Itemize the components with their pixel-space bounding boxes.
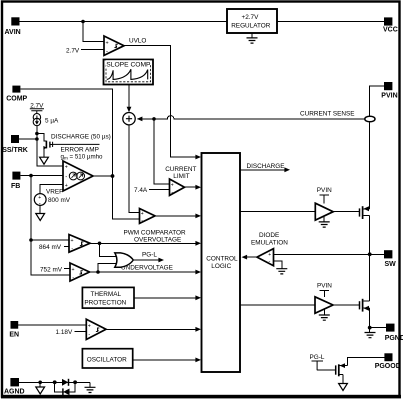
svg-text:CURRENT: CURRENT — [165, 166, 196, 173]
wire diode loop — [55, 382, 75, 392]
svg-text:LIMIT: LIMIT — [173, 173, 189, 180]
wire FB down to comparators — [31, 176, 69, 240]
svg-text:AGND: AGND — [4, 388, 25, 395]
wire 864mV to comparator - input — [64, 246, 69, 248]
wire 7.4A to current limit - input — [149, 188, 170, 190]
diode top (pointing right) — [62, 379, 69, 386]
svg-text:THERMAL: THERMAL — [91, 291, 122, 298]
wire diode emulation - input to ground — [274, 261, 282, 269]
node diode left — [53, 380, 57, 384]
wire PG-L arrow — [133, 259, 160, 261]
op-amp diode emulation comparator (points left) — [257, 249, 274, 266]
svg-text:UNDERVOLTAGE: UNDERVOLTAGE — [121, 264, 173, 271]
op-amp current limit comparator — [165, 166, 196, 196]
svg-text:+2.7V: +2.7V — [242, 14, 260, 21]
svg-text:PVIN: PVIN — [381, 92, 397, 99]
wire diode emulation output into control logic — [246, 256, 257, 258]
wire control logic to low side driver — [241, 304, 316, 306]
wire slope comp to summing junction — [128, 85, 130, 108]
svg-text:PVIN: PVIN — [317, 187, 332, 194]
gate OR PG-L — [115, 253, 134, 267]
wire AVIN junction to UVLO + input — [83, 22, 104, 42]
svg-text:FB: FB — [11, 183, 20, 190]
wire to PGND pin — [370, 327, 386, 329]
node SW junction — [368, 252, 372, 256]
node current limit tap — [152, 117, 156, 121]
svg-text:COMP: COMP — [6, 95, 27, 102]
svg-text:752 mV: 752 mV — [40, 266, 63, 273]
wire error amp output to PWM - input — [113, 176, 140, 219]
transistor PGOOD pulldown — [336, 363, 348, 376]
ground arrow on AGND net — [39, 382, 41, 387]
wire current limit output to control logic — [185, 186, 197, 188]
svg-text:-: - — [71, 246, 73, 252]
node AGND arrow tap — [38, 381, 42, 385]
svg-text:OSCILLATOR: OSCILLATOR — [87, 356, 127, 363]
svg-text:-: - — [65, 174, 67, 180]
pin SS/TRK — [2, 135, 28, 154]
node PGND junction — [368, 326, 372, 330]
svg-text:DISCHARGE: DISCHARGE — [247, 163, 285, 170]
op-amp undervoltage comparator 752mV — [70, 263, 90, 281]
svg-text:-: - — [106, 49, 108, 55]
transistor discharge switch — [37, 134, 53, 157]
svg-text:864 mV: 864 mV — [39, 244, 62, 251]
block SLOPE COMP — [104, 60, 154, 85]
rail PVIN above low side driver — [317, 283, 332, 297]
svg-text:800 mV: 800 mV — [48, 197, 71, 204]
block CONTROL LOGIC — [202, 153, 241, 372]
svg-text:+: + — [171, 182, 174, 188]
wire control logic to high side driver — [241, 211, 316, 213]
op-amp EN comparator — [86, 319, 106, 339]
op-amp error amp — [61, 147, 104, 191]
wire driver to high side gate — [333, 211, 359, 213]
svg-text:PROTECTION: PROTECTION — [84, 300, 126, 307]
pin PVIN — [381, 82, 397, 99]
svg-text:CONTROL: CONTROL — [206, 256, 238, 263]
svg-text:PG-L: PG-L — [310, 354, 325, 361]
op-amp low side driver — [315, 297, 333, 314]
svg-text:+: + — [106, 40, 109, 46]
op-amp UVLO comparator — [104, 36, 146, 55]
op-amp high side driver — [315, 203, 333, 220]
svg-text:-: - — [88, 331, 90, 337]
wire driver to low side gate — [333, 304, 359, 306]
wire FB to error amp - input — [20, 175, 63, 177]
svg-text:SW: SW — [385, 261, 397, 268]
svg-text:CURRENT SENSE: CURRENT SENSE — [300, 111, 355, 118]
wire PGOOD drain to pin — [347, 357, 384, 365]
wire overvoltage output to control logic — [90, 242, 197, 244]
wire VREF to ground — [39, 205, 41, 213]
svg-text:-: - — [72, 275, 74, 281]
pin COMP — [6, 86, 27, 103]
wire low side source to PGND — [369, 308, 371, 327]
svg-text:DISCHARGE (50 µs): DISCHARGE (50 µs) — [51, 134, 111, 141]
op-amp overvoltage comparator 864mV — [69, 235, 90, 253]
wire current source to SS/TRK node — [37, 126, 63, 166]
ground below high side driver — [323, 216, 325, 222]
svg-text:1.18V: 1.18V — [56, 329, 73, 336]
wire summing junction to PWM + input — [129, 125, 140, 212]
ground arrow below PGOOD transistor — [339, 384, 348, 391]
svg-text:5 µA: 5 µA — [45, 118, 59, 125]
svg-text:PGOOD: PGOOD — [375, 363, 401, 370]
svg-text:+: + — [268, 252, 271, 258]
ground arrow below discharge switch — [40, 157, 49, 164]
transistor low side NMOS — [360, 299, 370, 312]
svg-text:-: - — [171, 190, 173, 196]
pin PGND — [385, 324, 403, 342]
svg-text:+: + — [72, 267, 75, 273]
svg-text:PWM COMPARATOR: PWM COMPARATOR — [124, 229, 187, 236]
pin SW — [384, 250, 396, 268]
pin AVIN — [5, 17, 21, 36]
voltage source VREF 800mV — [34, 189, 70, 207]
svg-text:OVERVOLTAGE: OVERVOLTAGE — [134, 237, 181, 244]
wire undervoltage output to control logic — [90, 271, 197, 273]
transistor high side NMOS — [360, 206, 370, 219]
wire overvoltage to OR gate top input — [100, 243, 117, 256]
diode bottom (pointing left) — [63, 388, 70, 395]
wire PVIN rail down — [370, 86, 384, 209]
wire 1.18V to comparator - input — [75, 330, 87, 332]
wire EN comparator to control logic — [106, 328, 197, 330]
node FB 864 junction — [29, 238, 33, 242]
pin EN — [9, 321, 19, 339]
svg-text:2.7V: 2.7V — [66, 47, 80, 54]
wire PWM output to control logic — [155, 215, 197, 217]
wire COMP to error amp output node — [20, 89, 112, 176]
wire FB to 752 comparator - input — [31, 240, 70, 275]
wire discharge signal out — [241, 169, 286, 171]
svg-text:SLOPE COMP: SLOPE COMP — [106, 62, 151, 69]
node AVIN junction — [81, 20, 85, 24]
node COMP error amp output — [111, 174, 115, 178]
node FB junction — [29, 174, 33, 178]
wire 2.7V to UVLO - input — [81, 49, 104, 51]
svg-text:+: + — [71, 238, 74, 244]
pin VCC — [383, 17, 398, 33]
svg-text:PG-L: PG-L — [142, 252, 157, 259]
label DIODE EMULATION — [251, 232, 288, 247]
node SS junction top — [35, 132, 39, 136]
svg-text:gm = 510 µmho: gm = 510 µmho — [61, 153, 104, 160]
wire thermal protection to control logic — [134, 297, 197, 299]
svg-text:REGULATOR: REGULATOR — [231, 22, 271, 29]
node diode right — [73, 380, 77, 384]
wire AGND net — [19, 381, 90, 383]
svg-text:UVLO: UVLO — [129, 38, 146, 45]
svg-text:+: + — [141, 211, 144, 217]
wire SW net — [274, 253, 385, 255]
svg-text:AVIN: AVIN — [5, 29, 21, 36]
svg-text:+: + — [65, 183, 68, 189]
wire VREF to error amp + input — [40, 184, 63, 193]
svg-text:PGND: PGND — [385, 335, 403, 342]
wire undervoltage to OR gate bottom input — [98, 264, 117, 272]
svg-text:+: + — [65, 165, 68, 171]
wire PG-L to PGOOD transistor gate — [317, 369, 335, 371]
svg-text:DIODE: DIODE — [259, 232, 279, 239]
block +2.7V REGULATOR — [227, 9, 277, 33]
wire oscillator to control logic — [133, 359, 197, 361]
wire low side drain to SW — [369, 254, 371, 301]
svg-text:-: - — [269, 259, 271, 265]
pin FB — [11, 172, 20, 190]
wire current sense line with hop — [138, 116, 365, 119]
ground arrow below VREF — [36, 214, 45, 221]
wire SS/TRK to node — [19, 138, 37, 140]
ground below low side driver — [323, 309, 325, 314]
wire high side source to SW — [369, 216, 371, 255]
svg-text:-: - — [141, 218, 143, 224]
svg-text:+: + — [38, 195, 41, 201]
node SS junction wire — [35, 137, 39, 141]
svg-text:+: + — [88, 324, 91, 330]
wire PGOOD source to ground — [342, 375, 344, 384]
block THERMAL PROTECTION — [82, 287, 134, 308]
rail 2.7V above current source — [30, 102, 44, 113]
wire error amp output — [93, 175, 113, 177]
svg-text:7.4A: 7.4A — [134, 187, 148, 194]
current source 5uA — [33, 114, 59, 126]
wire EN to comparator + input — [18, 324, 86, 326]
ground below PGND node — [369, 328, 371, 333]
svg-text:VCC: VCC — [383, 26, 398, 33]
pin AGND — [4, 378, 25, 395]
label PG-L gate stub — [310, 354, 325, 370]
node summing junction — [123, 113, 135, 125]
wire discharge gate stub — [53, 142, 100, 147]
svg-text:EN: EN — [9, 332, 19, 339]
ground earth on AGND net — [89, 382, 91, 387]
pin PGOOD — [375, 353, 401, 370]
wire current sense to current limit + input — [154, 119, 170, 184]
ground below regulator — [251, 33, 253, 38]
node undervoltage to OR — [96, 270, 100, 274]
svg-text:LOGIC: LOGIC — [211, 263, 231, 270]
svg-text:SS/TRK: SS/TRK — [2, 147, 28, 154]
current sense element ellipse — [365, 116, 375, 122]
svg-text:EMULATION: EMULATION — [251, 239, 288, 246]
wire AVIN to regulator and VCC — [20, 21, 385, 23]
svg-text:PVIN: PVIN — [317, 283, 332, 290]
op-amp PWM comparator — [140, 209, 156, 225]
block OSCILLATOR — [82, 349, 132, 368]
wire 752mV to comparator + input — [64, 268, 70, 270]
wire UVLO output to control logic — [124, 46, 197, 157]
node overvoltage to OR — [98, 242, 102, 246]
rail PVIN above high side driver — [317, 187, 332, 203]
svg-text:VREF: VREF — [46, 189, 63, 196]
